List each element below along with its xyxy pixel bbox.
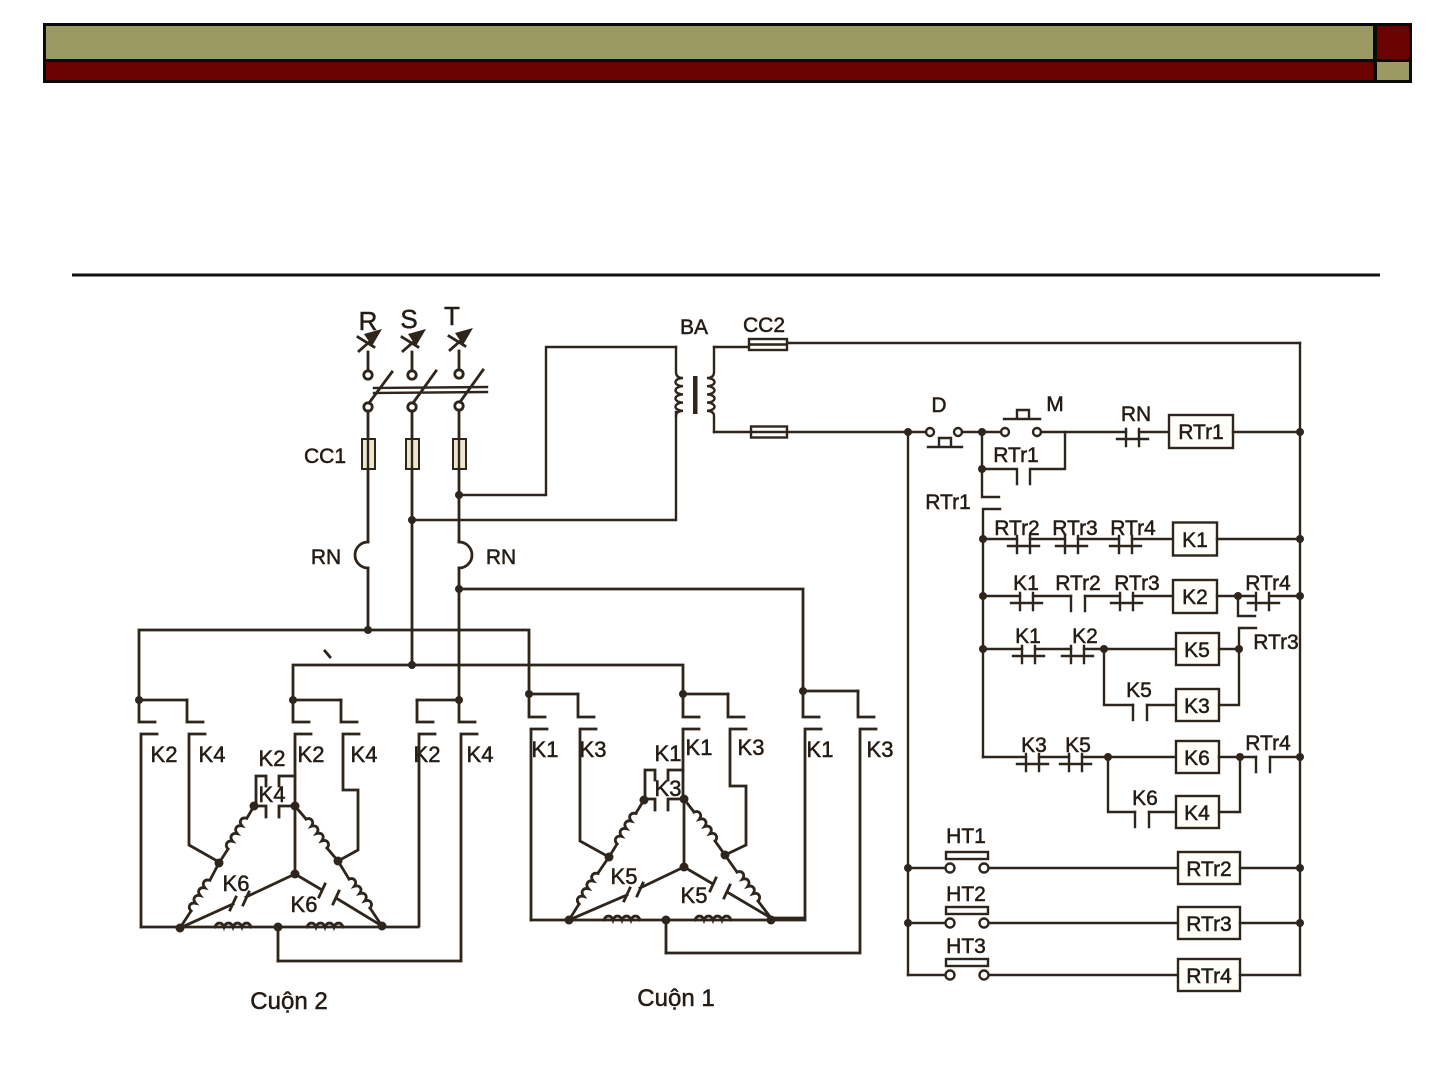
- contact K4 apex winding2: [254, 776, 295, 817]
- wire rung4 segment b: [1039, 756, 1069, 758]
- node rung2 left: [979, 592, 987, 600]
- wire RTr2 coil to right rail: [1240, 867, 1300, 869]
- svg-text:RN: RN: [1121, 403, 1151, 426]
- node K6 output: [1236, 753, 1244, 761]
- winding1 bottom coil left: [604, 916, 640, 920]
- wire BA primary bottom to S node: [412, 412, 676, 520]
- node HT2 left rail: [904, 919, 912, 927]
- contact RTr2 (NO) rung2: [1071, 596, 1085, 611]
- svg-text:RTr4: RTr4: [1186, 965, 1232, 988]
- winding1 left phase coil lower: [598, 857, 609, 873]
- winding2 bottom coil right: [307, 923, 343, 927]
- svg-text:RN: RN: [311, 546, 341, 569]
- knife switch upper terminal T: [455, 370, 463, 378]
- svg-text:S: S: [400, 304, 417, 334]
- svg-text:K3: K3: [1184, 695, 1210, 718]
- node branch RTr1 hold left: [978, 428, 986, 436]
- svg-text:RTr3: RTr3: [1052, 517, 1098, 540]
- winding1 bottom coil right: [695, 916, 731, 920]
- contact K2 apex winding2: [256, 776, 294, 806]
- contact K5 (NC) rung4: [1060, 754, 1091, 771]
- node winding1 group2 top: [679, 690, 687, 698]
- wire rung4 segment a: [983, 756, 1026, 758]
- contact K1 group3 winding1: [771, 691, 821, 918]
- svg-text:K4: K4: [259, 782, 286, 807]
- node HT1 left rail: [904, 864, 912, 872]
- svg-text:K1: K1: [532, 737, 559, 762]
- node RTr2 right rail: [1296, 864, 1304, 872]
- contact K6 left arm winding2: [180, 874, 295, 928]
- node control left rail top: [904, 428, 912, 436]
- contact RTr2 (NC) rung1: [1008, 536, 1039, 553]
- node S on bus2: [408, 661, 416, 669]
- wire K2 coil to node: [1217, 595, 1238, 597]
- wire RTr4 to right rail: [1270, 756, 1300, 758]
- knife switch blade S: [413, 371, 436, 403]
- wire R RN to bus1: [367, 568, 370, 630]
- wire winding2 star tap riser: [277, 927, 280, 961]
- node T branch to winding1 group3: [455, 585, 463, 593]
- contact K5 left arm winding1: [569, 867, 684, 920]
- contactor coil K3: [1176, 689, 1219, 721]
- relay coil RTr1: [1169, 415, 1233, 448]
- svg-text:K3: K3: [867, 737, 894, 762]
- node winding1 right tap: [721, 851, 730, 860]
- wire winding1 star tap riser: [665, 920, 668, 953]
- node winding1 bottom center tap: [662, 916, 671, 925]
- left control rail: [907, 432, 909, 975]
- winding2 right phase coil lower: [338, 861, 349, 879]
- wire winding1 group1 top bar: [529, 693, 578, 696]
- contactor coil K1: [1173, 523, 1217, 556]
- wire T RN to branch node: [458, 568, 461, 589]
- wire R fuse to RN heater: [367, 469, 370, 542]
- winding2 left phase coil upper: [247, 806, 254, 818]
- svg-text:K6: K6: [223, 871, 250, 896]
- svg-text:RTr3: RTr3: [1186, 913, 1232, 936]
- wire S switch to fuse: [411, 411, 414, 439]
- wire rung2 segment b: [1033, 595, 1071, 597]
- wire HT1 to RTr2 coil: [989, 867, 1178, 869]
- node K1 right rail: [1296, 535, 1304, 543]
- node winding1 apex left: [640, 796, 649, 805]
- node winding2 group2 top: [289, 696, 297, 704]
- contact K3 group2 winding1: [725, 694, 746, 855]
- wire K5 coil to node: [1219, 648, 1239, 650]
- node rung4 right rail: [1296, 753, 1304, 761]
- winding2 bottom line: [141, 926, 418, 929]
- node K5 output: [1235, 645, 1243, 653]
- winding1 left phase coil upper: [636, 800, 644, 813]
- bus 2 phase S distribution: [293, 665, 683, 700]
- wire rail to HT1: [908, 867, 945, 869]
- wire hold branch left drop: [981, 432, 983, 469]
- wire HT3 to RTr4 coil: [989, 974, 1178, 976]
- contact K1 (NC) rung3: [1013, 646, 1044, 663]
- svg-text:K5: K5: [1126, 679, 1152, 702]
- node winding1 apex right: [680, 795, 689, 804]
- knife switch lower terminal T: [455, 402, 463, 410]
- pushbutton D (NC stop button): [926, 428, 962, 447]
- wire rung1 segment b: [1030, 538, 1065, 540]
- svg-text:D: D: [931, 394, 946, 417]
- node winding1 bottom right vertex: [767, 916, 776, 925]
- wire rung2 segment a: [983, 595, 1020, 597]
- svg-text:K4: K4: [467, 742, 494, 767]
- node winding2 star center: [291, 870, 300, 879]
- node winding2 bottom right vertex: [378, 922, 387, 931]
- wire T phase to winding1 group3: [459, 589, 803, 691]
- svg-text:K5: K5: [611, 864, 638, 889]
- svg-text:K4: K4: [351, 742, 378, 767]
- contact K1 apex winding1: [645, 770, 683, 799]
- transformer BA primary winding: [676, 347, 684, 416]
- svg-text:RTr1: RTr1: [1178, 421, 1224, 444]
- wire rung2 segment c: [1085, 595, 1120, 597]
- contact RN (NC thermal): [1117, 429, 1148, 446]
- RN thermal heater phase R: [355, 542, 368, 568]
- node rung2 right rail: [1296, 592, 1304, 600]
- winding1 bottom line: [531, 919, 805, 922]
- svg-text:K6: K6: [1132, 787, 1158, 810]
- wire K1 coil to right rail: [1217, 538, 1300, 540]
- node winding1 group1 top: [525, 690, 533, 698]
- contact K2 group3 winding2: [417, 700, 435, 926]
- svg-text:K1: K1: [655, 741, 682, 766]
- left ladder rail rung1 to rung4: [982, 539, 984, 757]
- contact K5 (NO) subrung3: [1133, 705, 1147, 720]
- contact K1 group2 winding1: [683, 694, 699, 770]
- node K2 output: [1234, 592, 1242, 600]
- contactor coil K2: [1173, 580, 1217, 613]
- wire rung3 segment b: [1035, 648, 1071, 650]
- fuse CC1 phase R: [362, 439, 375, 469]
- RN thermal heater phase T: [459, 542, 472, 568]
- wire K6 contact to K4 coil: [1149, 811, 1176, 813]
- wire RTr1 coil to right rail: [1233, 431, 1300, 433]
- horizontal separator rule: [72, 274, 1380, 277]
- node winding1 bottom left vertex: [565, 916, 574, 925]
- wire rung3 segment c: [1084, 648, 1176, 650]
- node rung4 branch: [1104, 753, 1112, 761]
- contact K3 group1 winding1: [578, 694, 609, 857]
- contact RTr4 (NC) rung1: [1110, 536, 1141, 553]
- contact RTr4 (NO) rung4: [1256, 757, 1270, 772]
- svg-text:T: T: [444, 301, 460, 331]
- transformer BA secondary winding: [707, 347, 715, 432]
- svg-text:CC1: CC1: [304, 445, 346, 468]
- fuse CC1 phase S: [406, 439, 419, 469]
- wire rung3 segment a: [983, 648, 1022, 650]
- scan speck mark: [325, 651, 330, 657]
- node winding2 apex left: [250, 802, 259, 811]
- wire S arrow to switch terminal: [411, 352, 414, 370]
- winding2 left phase coil lower: [210, 863, 219, 880]
- wire winding2 center drop: [294, 806, 297, 874]
- svg-text:K1: K1: [1015, 625, 1041, 648]
- relay coil RTr3: [1178, 907, 1240, 939]
- node hold branch lower: [978, 465, 986, 473]
- svg-text:K3: K3: [738, 735, 765, 760]
- contact K3 apex winding1: [644, 770, 684, 810]
- node winding2 bottom left vertex: [176, 924, 185, 933]
- wire D to M: [962, 431, 1001, 433]
- node T-BA junction: [455, 491, 463, 499]
- node winding2 bottom center tap: [274, 923, 283, 932]
- svg-text:K3: K3: [580, 737, 607, 762]
- wire winding1 group2 top bar: [683, 693, 728, 696]
- svg-text:K1: K1: [1013, 572, 1039, 595]
- contactor coil K6: [1176, 741, 1219, 773]
- wire RTr4 coil to right rail: [1240, 974, 1300, 976]
- right vertical rail: [1299, 343, 1301, 975]
- wire rung1 segment d: [1132, 538, 1173, 540]
- knife switch upper terminal R: [364, 371, 372, 379]
- svg-text:Cuộn 1: Cuộn 1: [637, 985, 714, 1012]
- knife switch lower terminal S: [408, 403, 416, 411]
- svg-text:K2: K2: [151, 742, 178, 767]
- fuse CC1 phase T: [453, 439, 466, 469]
- wire S fuse to BA tap node: [411, 469, 414, 520]
- node winding2 apex right: [291, 802, 300, 811]
- contact K3 group3 winding1: [666, 691, 876, 953]
- svg-text:RTr2: RTr2: [1186, 858, 1232, 881]
- svg-text:K1: K1: [686, 735, 713, 760]
- wire BA secondary top to right rail: [714, 343, 1300, 347]
- svg-text:K6: K6: [1184, 747, 1210, 770]
- svg-text:RTr3: RTr3: [1253, 631, 1299, 654]
- node winding1 left tap: [605, 853, 614, 862]
- svg-text:K5: K5: [681, 883, 708, 908]
- fuse CC2: [749, 339, 787, 350]
- contact K1 group1 winding1: [529, 694, 547, 920]
- wire K3 coil up to K5 node: [1219, 649, 1239, 705]
- contact RTr3 (NC) rung2: [1111, 593, 1142, 610]
- wire K5 contact to K3 coil: [1147, 704, 1176, 706]
- svg-text:K6: K6: [291, 892, 318, 917]
- svg-text:HT3: HT3: [946, 935, 986, 958]
- wire rung4 segment c: [1082, 756, 1176, 758]
- svg-text:K5: K5: [1184, 639, 1210, 662]
- svg-text:K2: K2: [1182, 586, 1208, 609]
- supply arrow phase T: [449, 328, 473, 350]
- wire winding1 center drop: [683, 799, 686, 867]
- wire R switch to fuse: [367, 411, 370, 439]
- limit switch HT1: [946, 852, 989, 873]
- wire K6 coil to node: [1219, 756, 1256, 758]
- svg-text:RN: RN: [486, 546, 516, 569]
- supply arrow phase R: [358, 329, 382, 351]
- contact RTr1 holding (NO): [982, 432, 1065, 484]
- svg-text:RTr1: RTr1: [993, 444, 1039, 467]
- limit switch HT3: [946, 959, 989, 980]
- svg-text:K1: K1: [1182, 529, 1208, 552]
- svg-text:Cuộn 2: Cuộn 2: [250, 988, 327, 1015]
- svg-text:K2: K2: [259, 746, 286, 771]
- svg-text:K2: K2: [1072, 625, 1098, 648]
- knife switch blade T: [460, 370, 483, 402]
- contact K5 right arm winding1: [684, 867, 771, 918]
- winding1 right phase coil upper: [684, 799, 694, 812]
- contact K1 (NC) rung2: [1011, 593, 1042, 610]
- knife switch blade R: [369, 372, 392, 403]
- winding2 bottom coil left: [215, 923, 251, 927]
- fuse lower secondary: [751, 427, 787, 438]
- wire BA secondary bottom control line: [714, 431, 926, 433]
- svg-text:M: M: [1046, 393, 1064, 416]
- node rung3 left: [979, 645, 987, 653]
- svg-text:K3: K3: [655, 776, 682, 801]
- node S-BA junction: [408, 516, 416, 524]
- contact RTr3 (NC) rung1: [1056, 536, 1087, 553]
- contact K2 group1 winding2: [139, 700, 157, 927]
- svg-text:RTr4: RTr4: [1245, 572, 1291, 595]
- wire winding1 group3 top bar: [803, 690, 858, 693]
- wire RTr3 coil to right rail: [1240, 922, 1300, 924]
- node winding1 group3 top: [799, 687, 807, 695]
- wire rail to HT3: [908, 974, 945, 976]
- wire R arrow to switch terminal: [367, 352, 370, 370]
- contact K3 (NC) rung4: [1017, 754, 1048, 771]
- svg-text:CC2: CC2: [743, 314, 785, 337]
- contact RTr1 ladder feed (NO vertical): [982, 469, 1000, 539]
- wire T arrow to switch terminal: [458, 351, 461, 369]
- header khaki title bar: [46, 26, 1373, 59]
- wire S down to bus2: [411, 520, 414, 665]
- node winding2 group1 top: [135, 696, 143, 704]
- wire M to RN contact: [1041, 431, 1126, 433]
- relay coil RTr4: [1178, 959, 1240, 991]
- pushbutton M (NO start button): [1001, 410, 1041, 436]
- wire K4 coil up to K6 node: [1219, 757, 1240, 812]
- node rung3 branch: [1100, 645, 1108, 653]
- header bottom-right khaki cell: [1377, 62, 1409, 80]
- wire HT2 to RTr3 coil: [989, 922, 1178, 924]
- svg-text:K1: K1: [807, 737, 834, 762]
- node T at winding2 group3: [455, 696, 463, 704]
- wire winding2 group3 top bar: [417, 699, 459, 702]
- wire T node to RN heater: [458, 495, 461, 542]
- wire K3 subrung drop: [1104, 649, 1133, 705]
- svg-text:BA: BA: [680, 316, 708, 339]
- relay coil RTr2: [1178, 852, 1240, 884]
- contact RTr3 (NO vertical) K5 feedback: [1238, 596, 1256, 649]
- contactor coil K5: [1176, 633, 1219, 665]
- svg-text:RTr2: RTr2: [1055, 572, 1101, 595]
- node RTr3 right rail: [1296, 919, 1304, 927]
- contact RTr4 (NC) rung2: [1238, 593, 1300, 610]
- knife switch gang bar: [374, 387, 487, 388]
- svg-text:RTr3: RTr3: [1114, 572, 1160, 595]
- wire RN to RTr1 coil: [1139, 431, 1169, 433]
- svg-text:K2: K2: [414, 742, 441, 767]
- contact K6 (NO) subrung4: [1135, 812, 1149, 827]
- wire rung2 segment d: [1133, 595, 1173, 597]
- node R on bus1: [364, 626, 372, 634]
- wire rung1 segment c: [1078, 538, 1119, 540]
- wire K4 subrung drop: [1108, 757, 1135, 812]
- wire winding2 group1 top bar: [139, 699, 187, 702]
- winding1 right phase coil lower: [725, 855, 737, 872]
- header top-right red cell: [1377, 26, 1409, 59]
- bus 1 phase R distribution: [139, 630, 529, 700]
- transformer BA core: [693, 376, 698, 414]
- wire T switch to fuse: [458, 410, 461, 439]
- contact K2 (NC) rung3: [1062, 646, 1093, 663]
- svg-text:HT2: HT2: [946, 883, 986, 906]
- node winding2 right tap: [334, 857, 343, 866]
- winding2 right phase coil upper: [295, 806, 306, 819]
- svg-text:RTr4: RTr4: [1245, 732, 1291, 755]
- svg-text:K4: K4: [199, 742, 226, 767]
- svg-text:RTr1: RTr1: [925, 491, 971, 514]
- wire T node to BA primary top: [459, 347, 676, 495]
- contact K4 group3 winding2: [278, 700, 477, 961]
- supply arrow phase S: [402, 329, 426, 351]
- contact K2 group2 winding2: [293, 700, 311, 776]
- wire T node down to group3 of winding 2: [458, 589, 461, 700]
- contactor coil K4: [1176, 796, 1219, 828]
- node winding2 left tap: [215, 859, 224, 868]
- wire winding2 group2 top bar: [293, 699, 341, 702]
- wire T fuse to BA tap node: [458, 469, 461, 495]
- contact K4 group1 winding2: [187, 700, 219, 862]
- node rung1 left: [979, 535, 987, 543]
- knife switch lower terminal R: [364, 403, 372, 411]
- node winding1 star center: [680, 863, 689, 872]
- limit switch HT2: [946, 907, 989, 928]
- svg-text:K2: K2: [298, 742, 325, 767]
- node RTr1 right rail: [1296, 428, 1304, 436]
- header dark red sub bar: [46, 62, 1373, 80]
- knife switch upper terminal S: [408, 371, 416, 379]
- svg-text:HT1: HT1: [946, 825, 986, 848]
- wire rail to HT2: [908, 922, 945, 924]
- wire rung1 segment a: [983, 538, 1017, 540]
- contact K4 group2 winding2: [338, 700, 359, 861]
- contact K6 right arm winding2: [295, 874, 382, 926]
- svg-text:K4: K4: [1184, 802, 1210, 825]
- header banner outer black frame: [43, 23, 1412, 83]
